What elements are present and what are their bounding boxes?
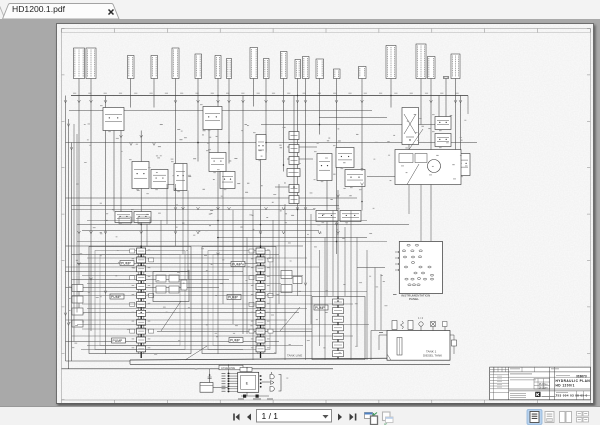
fuse symbol: [208, 373, 210, 382]
wire horizontal: [71, 208, 315, 210]
pump group P3 valve block 7: [332, 350, 343, 356]
facing pages button: [560, 412, 566, 423]
wire vertical: [430, 210, 432, 241]
svg-text:318673: 318673: [575, 374, 586, 378]
extract pages icon disabled: [383, 412, 391, 421]
wire label drop: [217, 78, 219, 95]
page number box: [257, 410, 332, 423]
indicator lamp 3: [402, 249, 405, 251]
wire horizontal: [217, 236, 367, 238]
indicator lamp 21: [407, 283, 410, 285]
wire vertical: [67, 119, 69, 369]
pump group P3 main line: [337, 296, 339, 359]
solenoid valve D1: [402, 107, 419, 144]
wire vertical: [454, 95, 456, 149]
indicator lamp 5: [419, 249, 422, 251]
wire label drop: [129, 78, 131, 95]
label box L12: [295, 59, 301, 78]
wire vertical: [197, 95, 199, 161]
wire vertical: [120, 130, 122, 211]
last page button: [350, 414, 354, 421]
wire vertical: [380, 274, 382, 330]
wire vertical: [272, 220, 274, 296]
relay M1: [134, 211, 151, 222]
indicator lamp 9: [411, 261, 414, 263]
pump group P3 valve block 5: [332, 333, 343, 339]
wire horizontal: [261, 123, 439, 125]
wire vertical: [366, 250, 368, 360]
wire vertical: [90, 95, 92, 331]
relay O1: [336, 147, 354, 167]
svg-text:PUMP: PUMP: [232, 262, 243, 266]
wire vertical: [337, 190, 339, 301]
label box L15: [333, 69, 340, 79]
left rail wires: [73, 124, 75, 342]
indicator lamp 16: [404, 278, 407, 280]
svg-text:753 004 03 08 05 0: 753 004 03 08 05 0: [555, 393, 587, 397]
wire horizontal: [82, 303, 353, 305]
pump group P1 valve block 3: [136, 265, 145, 271]
wire number labels: [170, 157, 173, 160]
inactive tab edge: [0, 5, 5, 20]
valve stack V4: [287, 168, 300, 176]
indicator lamp 6: [403, 256, 406, 258]
indicator lamp 12: [427, 266, 430, 268]
wire vertical: [296, 220, 298, 296]
pump group P2 valve block 12: [256, 345, 265, 351]
bus line top: [71, 94, 468, 96]
wire vertical: [278, 184, 280, 304]
wire vertical: [78, 95, 80, 311]
pump group P1 valve block 2: [136, 256, 145, 262]
svg-text:PUMP: PUMP: [315, 305, 326, 309]
pump group P2 valve block 7: [256, 301, 265, 307]
wire vertical: [361, 95, 363, 210]
valve stack V5: [289, 184, 299, 192]
indicator lamp 11: [418, 266, 421, 268]
label box L10: [263, 58, 269, 78]
indicator lamp 17: [410, 278, 413, 280]
wire vertical: [459, 95, 461, 153]
svg-text:HD 1200/1: HD 1200/1: [555, 383, 574, 387]
wire vertical: [166, 184, 168, 224]
pump group P2 valve block 5: [256, 283, 265, 289]
pump label PUMP: [231, 261, 245, 266]
label box L11: [280, 51, 287, 78]
wire label drop: [361, 78, 363, 95]
wire horizontal: [71, 335, 353, 337]
bus line secondary: [69, 109, 372, 111]
tank feed wires: [379, 334, 387, 336]
wire vertical: [242, 95, 244, 334]
svg-text:1 / 2: 1 / 2: [418, 316, 424, 320]
title date grid: [534, 378, 550, 389]
relay L1: [115, 211, 132, 222]
wire vertical: [326, 171, 328, 296]
pump label PUMP: [120, 260, 134, 265]
chevron row mid: [174, 207, 177, 210]
wire horizontal: [87, 307, 307, 309]
sheet border frame: [61, 28, 590, 400]
company logo: [535, 391, 540, 396]
wire horizontal: [71, 253, 279, 255]
wire vertical: [70, 142, 72, 361]
wire horizontal: [82, 229, 319, 231]
tank fitting F4: [418, 321, 422, 325]
wire vertical: [104, 95, 106, 354]
indicator lamp 8: [418, 255, 421, 257]
wire label drop: [430, 78, 432, 95]
svg-text:DIESEL TANK: DIESEL TANK: [423, 353, 442, 357]
tank left pipe: [370, 330, 372, 360]
wire label drop: [445, 78, 447, 95]
continuous view button: [545, 412, 554, 423]
wire vertical: [217, 274, 219, 354]
wire horizontal: [87, 344, 303, 346]
label box L5: [172, 48, 179, 79]
wire horizontal: [71, 204, 339, 206]
wire vertical: [284, 204, 286, 360]
valve J1: [209, 152, 226, 171]
indicator lamp 13: [413, 272, 416, 274]
pump group P3 valve block 2: [332, 307, 343, 313]
pump group P1 valve block 11: [136, 337, 145, 343]
valve P1: [345, 169, 365, 186]
sensor W1: [457, 153, 470, 175]
wire horizontal: [65, 245, 303, 247]
tank fitting F6: [442, 321, 447, 326]
wire horizontal: [153, 183, 187, 185]
wire label drop: [228, 78, 230, 95]
pump group P1 valve block 10: [136, 328, 145, 334]
indicator lamp 18: [417, 277, 420, 279]
svg-text:1 / 1: 1 / 1: [262, 411, 279, 421]
wire vertical: [252, 210, 254, 360]
relay U1: [340, 210, 361, 221]
valve K1: [220, 171, 235, 188]
sensor block X2: [281, 284, 292, 292]
wire label drop: [153, 78, 155, 95]
valve stack V2: [289, 144, 299, 152]
wire vertical: [129, 95, 131, 107]
wire horizontal: [77, 262, 257, 264]
relay bank R2: [119, 217, 131, 224]
title block frame: [489, 367, 590, 400]
wire label drop: [265, 78, 267, 95]
label box L13: [302, 56, 309, 78]
wire label drop: [197, 78, 199, 95]
wire label drop: [296, 78, 298, 95]
label box L2: [86, 48, 96, 79]
wire horizontal: [77, 323, 369, 325]
svg-text:AXLE LINE: AXLE LINE: [221, 365, 235, 369]
valve R1: [435, 133, 451, 146]
single page view button (active): [527, 410, 542, 425]
wire vertical: [232, 210, 234, 324]
wire vertical: [344, 227, 346, 296]
pump group P3 valve block 4: [332, 324, 343, 330]
pump group P1 valve block 9: [136, 319, 145, 325]
part number: [556, 391, 568, 394]
pump group P3 valve block 1: [332, 299, 343, 305]
power unit Q1: [395, 149, 461, 184]
valve E1: [435, 116, 451, 129]
title block revision table: [489, 370, 590, 372]
title block sign area: [510, 392, 526, 395]
wire vertical: [335, 95, 337, 254]
label box L19: [427, 56, 435, 78]
wire vertical: [408, 144, 410, 149]
sensor S1: [455, 155, 464, 168]
wire vertical: [350, 210, 352, 360]
wire horizontal: [87, 282, 281, 284]
wire horizontal: [77, 290, 367, 292]
pump group P3 valve block 3: [332, 316, 343, 322]
pump group P1 valve block 5: [136, 283, 145, 289]
indicator lamp 14: [421, 272, 424, 274]
wire vertical: [318, 95, 320, 134]
label box L17: [386, 45, 396, 78]
pin column right: [259, 375, 261, 377]
wire horizontal: [157, 330, 312, 332]
label box L1: [73, 48, 84, 79]
bus tick labels: [73, 91, 76, 94]
svg-text:TANK LINE: TANK LINE: [287, 353, 302, 357]
wire vertical: [310, 214, 312, 324]
wire chevrons: [77, 262, 80, 265]
insert pages icon: [365, 413, 373, 419]
wire horizontal: [275, 186, 297, 188]
indicator lamp 1: [406, 244, 409, 246]
pump group P1 main line: [140, 246, 142, 358]
wire vertical: [187, 190, 189, 279]
wire horizontal: [87, 219, 367, 221]
wire horizontal: [65, 360, 130, 362]
pump group P2 valve block 1: [256, 248, 265, 254]
wire vertical: [174, 184, 176, 246]
pump group P2 valve block 4: [256, 274, 265, 280]
prev page button: [247, 414, 251, 421]
tank fitting F5: [431, 322, 435, 326]
wire horizontal: [65, 197, 357, 199]
wire vertical: [246, 237, 248, 334]
active tab HD1200.1.pdf: [3, 4, 120, 20]
pump label PUMP: [110, 294, 124, 299]
continuous facing button: [577, 412, 583, 417]
wire vertical: [318, 250, 320, 346]
label box L8: [226, 58, 231, 78]
label box L21: [451, 54, 460, 79]
first page button: [236, 414, 240, 421]
wire vertical: [467, 95, 469, 114]
pump label PUMP: [227, 294, 241, 299]
tank strainer: [397, 337, 402, 355]
label box L7: [215, 55, 221, 78]
wire horizontal: [71, 278, 229, 280]
pump group P1 valve block 12: [136, 345, 145, 351]
pump group P2 valve block 9: [256, 319, 265, 325]
control unit E1: [237, 372, 258, 392]
wire vertical: [420, 184, 422, 241]
wire label drop: [78, 78, 80, 95]
relay A2: [203, 106, 222, 129]
wire connector area: [213, 386, 228, 388]
wire vertical: [430, 95, 432, 210]
wire horizontal: [87, 257, 307, 259]
bottom toolbar: [0, 406, 600, 425]
wire vertical: [64, 95, 66, 361]
diode D9: [270, 380, 274, 384]
pump group P1 valve block 8: [136, 310, 145, 316]
wire horizontal: [82, 274, 303, 276]
svg-text:PUMP: PUMP: [121, 261, 132, 265]
label box L4: [151, 55, 158, 78]
indicator lamp 10: [404, 266, 407, 268]
tank fitting F2: [400, 321, 403, 329]
wire vertical: [174, 95, 176, 163]
svg-text:E: E: [245, 380, 248, 385]
pump group P3 valve block 6: [332, 342, 343, 348]
label box L6: [195, 54, 202, 79]
pump group P3 enclosure: [312, 296, 365, 359]
battery B1: [200, 382, 213, 392]
indicator lamp 4: [410, 249, 413, 251]
wire label drop: [282, 78, 284, 95]
wire vertical: [445, 95, 447, 116]
wire label drop: [454, 78, 456, 95]
manifold block F1: [153, 271, 189, 301]
wire horizontal: [287, 158, 313, 160]
indicator lamp 23: [416, 283, 419, 285]
valve I1: [174, 163, 187, 190]
pump group P2 valve block 11: [256, 337, 265, 343]
wire vertical: [332, 210, 334, 296]
wire horizontal: [77, 240, 387, 242]
wire horizontal: [65, 340, 279, 342]
valve H1: [151, 169, 168, 188]
wire vertical: [304, 95, 306, 264]
pump group P1 valve block 4: [136, 274, 145, 280]
valve stack V3: [289, 156, 299, 164]
wire horizontal: [77, 223, 409, 225]
connector lower squares: [243, 394, 246, 397]
indicator lamp 2: [415, 244, 418, 246]
pump group P2 main line: [259, 246, 261, 358]
svg-text:AH: AH: [544, 382, 547, 385]
wire horizontal: [81, 348, 243, 350]
label box L9: [250, 47, 258, 78]
wire label drop: [90, 78, 92, 95]
wire vertical: [222, 171, 224, 304]
tank fitting F3: [408, 320, 413, 329]
sensor block X1: [281, 270, 292, 278]
wire vertical: [146, 224, 148, 246]
pump label PUMP 3: [314, 305, 328, 310]
connector dots scatter: [140, 223, 142, 225]
svg-text:AH: AH: [544, 386, 547, 389]
label box L3: [127, 55, 134, 78]
wire vertical: [113, 107, 115, 211]
wire vertical: [252, 95, 254, 106]
pump group P2 valve block 6: [256, 292, 265, 298]
wire horizontal: [367, 175, 395, 177]
chevron row low: [77, 231, 80, 234]
pump group P1 valve block 7: [136, 301, 145, 307]
pump group P2 enclosure: [202, 246, 276, 353]
wire horizontal: [65, 286, 219, 288]
indicator lamp 15: [430, 274, 433, 276]
wire vertical: [265, 95, 267, 152]
wire vertical: [208, 106, 210, 152]
unit top label: [240, 367, 252, 371]
diesel tank T1: [387, 330, 450, 360]
pump group P2 valve block 8: [256, 310, 265, 316]
svg-text:PUMP: PUMP: [112, 338, 123, 342]
valve stack V1: [289, 131, 299, 139]
wire vertical: [153, 95, 155, 107]
wire vertical: [259, 152, 261, 247]
wire horizontal: [287, 146, 317, 148]
instrumentation panel box: [399, 241, 442, 293]
valve N1: [317, 153, 332, 180]
label box L18: [416, 44, 426, 79]
tab title: [12, 4, 65, 14]
valve stack V6: [289, 195, 299, 203]
diode DZ1: [270, 374, 274, 378]
tank line bus: [130, 357, 450, 359]
axle line drops: [208, 368, 210, 373]
indicator lamp 7: [411, 256, 414, 258]
wire stack feed: [293, 95, 295, 204]
wire label drop: [318, 78, 320, 95]
wire vertical: [140, 130, 142, 246]
wire vertical: [160, 220, 162, 271]
wire label drop: [335, 78, 337, 95]
indicator lamp 22: [412, 283, 415, 285]
relay T1: [316, 210, 338, 221]
wire horizontal: [65, 266, 319, 268]
label box L14: [316, 59, 324, 79]
wire vertical: [374, 267, 376, 330]
wire vertical: [408, 184, 410, 214]
wire horizontal: [319, 116, 387, 118]
tab close button: [107, 8, 117, 18]
pump group P2 valve block 2: [256, 256, 265, 262]
wire label drop: [252, 78, 254, 95]
label box L16: [358, 66, 366, 78]
svg-text:PANEL: PANEL: [409, 296, 419, 300]
pump group P1 valve block 6: [136, 292, 145, 298]
wire label drop: [174, 78, 176, 95]
panel feed stubs: [395, 251, 399, 253]
pump label PUMP: [111, 338, 125, 343]
axle line: [61, 367, 333, 369]
bracket: [278, 374, 281, 391]
wire vertical: [228, 95, 230, 163]
wire label drop: [390, 78, 392, 95]
connector pin column CN1: [227, 372, 229, 374]
wire horizontal: [65, 141, 477, 143]
indicator lamp 19: [423, 278, 426, 280]
title block right cell: [575, 390, 577, 399]
wire vertical: [420, 95, 422, 124]
wire horizontal: [357, 266, 385, 268]
sensor C1: [256, 134, 266, 159]
wire vertical: [304, 264, 306, 360]
junction dots: [174, 188, 176, 190]
svg-text:PUMP: PUMP: [228, 295, 239, 299]
wire vertical: [182, 163, 184, 254]
